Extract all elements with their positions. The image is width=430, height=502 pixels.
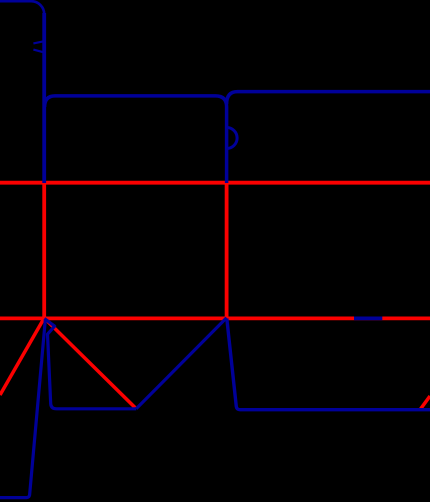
cut: thumb notch semicircle — [227, 128, 238, 149]
crease vertical right (x=226.6) — [225, 182, 229, 318]
cut: notch tick lower — [33, 50, 44, 53]
crease diagonal to tuck point — [44, 318, 135, 408]
cut: slit dash on bottom crease — [354, 316, 382, 320]
crease horizontal bottom (red fold line y=318) — [0, 316, 430, 320]
cut: long left flap edge down to bottom — [0, 320, 45, 498]
crease horizontal top (red fold line y=182) — [0, 181, 430, 185]
crease diagonal bottom-right corner — [420, 396, 430, 410]
cut: glue-flap top edge with rounded corner — [0, 1, 44, 183]
cut: glue-flap vertical emphasised — [42, 13, 46, 183]
cut: notch tick upper — [33, 41, 44, 43]
cut: right lid top edge (y=91.6) — [227, 92, 430, 104]
cut: tuck diagonal up to right junction — [136, 318, 226, 409]
cut: bottom-right flap edge and bottom — [227, 319, 430, 410]
crease diagonal lower-left — [0, 318, 44, 395]
cut: left lid top edge (y=96) with corners — [45, 96, 227, 183]
cut: lock wedge + inner flap edge + bottom edge — [44, 319, 136, 409]
crease vertical left (x=44) — [42, 182, 46, 318]
